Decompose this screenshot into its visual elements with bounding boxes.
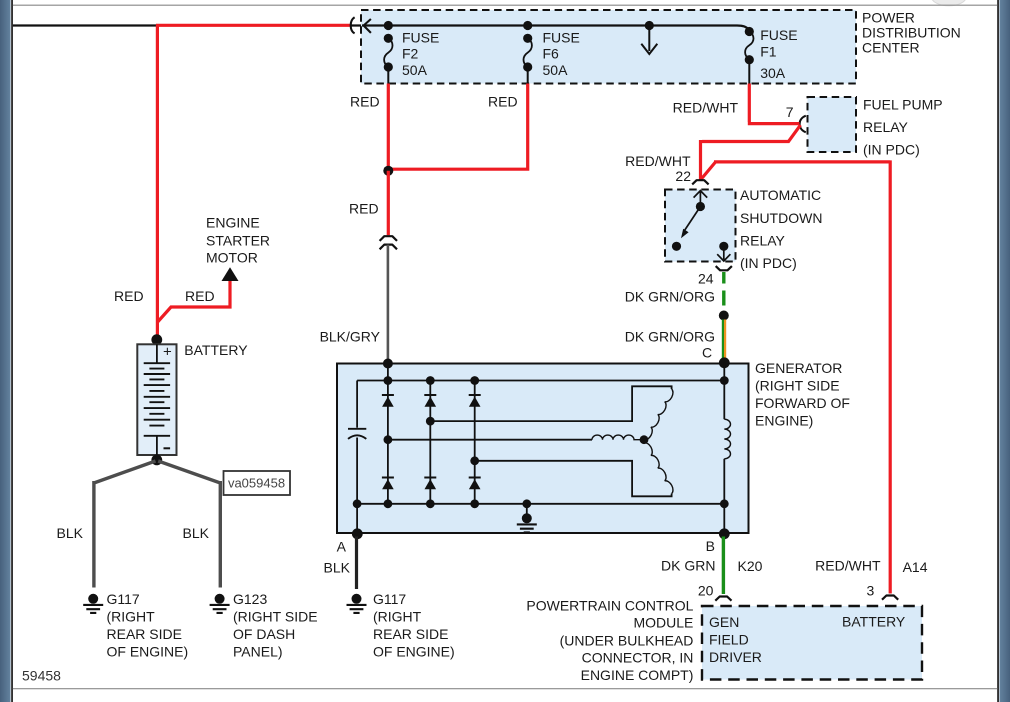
automatic shutdown relay box xyxy=(665,190,736,262)
svg-text:va059458: va059458 xyxy=(228,476,285,491)
svg-text:FUSE: FUSE xyxy=(760,27,797,43)
diode (bottom, leg 1) xyxy=(382,477,394,479)
svg-text:FORWARD OF: FORWARD OF xyxy=(755,395,850,411)
generator internal bottom rail xyxy=(357,503,724,505)
svg-text:F2: F2 xyxy=(402,45,419,61)
svg-text:(RIGHT: (RIGHT xyxy=(107,609,156,625)
ASD relay coil-side pin arrow (pin 22 internal) xyxy=(694,191,708,207)
rectifier leg 1 (x 388) xyxy=(387,381,389,504)
wire: DK GRN from generator B to PCM pin 20 xyxy=(722,537,725,595)
svg-text:DRIVER: DRIVER xyxy=(709,649,762,665)
pin 22 connector xyxy=(692,180,708,184)
svg-text:3: 3 xyxy=(867,583,875,599)
ground G123 xyxy=(215,594,225,604)
svg-text:FUSE: FUSE xyxy=(402,29,439,45)
svg-text:G117: G117 xyxy=(107,591,140,607)
svg-text:C: C xyxy=(702,345,712,361)
svg-text:CONNECTOR, IN: CONNECTOR, IN xyxy=(582,650,694,666)
diode (top, leg 1) xyxy=(382,394,394,396)
node: BLK/GRY entry junction on generator xyxy=(383,359,393,369)
node C terminal xyxy=(719,357,730,368)
svg-text:SHUTDOWN: SHUTDOWN xyxy=(740,210,822,226)
svg-text:30A: 30A xyxy=(760,65,786,81)
svg-text:RED: RED xyxy=(350,94,380,110)
pin 20 connector xyxy=(715,597,731,601)
svg-text:+: + xyxy=(163,344,172,361)
svg-text:ENGINE COMPT): ENGINE COMPT) xyxy=(581,667,694,683)
stator phase line 2 xyxy=(388,439,592,441)
pin 3 connector xyxy=(882,596,898,600)
wire: PDC internal bus xyxy=(362,26,749,30)
svg-text:F1: F1 xyxy=(760,43,777,59)
svg-text:FIELD: FIELD xyxy=(709,632,749,648)
svg-text:AUTOMATIC: AUTOMATIC xyxy=(740,187,821,203)
svg-text:RED: RED xyxy=(349,201,379,217)
va059458 reference box xyxy=(224,471,291,495)
node A terminal xyxy=(356,504,358,533)
ASD relay output contact (pin 24 internal) xyxy=(719,242,728,251)
generator internal top rail xyxy=(357,380,724,382)
stator winding (lower branch coil) xyxy=(644,443,673,494)
ground G117 (generator) xyxy=(352,594,362,604)
svg-text:(RIGHT: (RIGHT xyxy=(373,609,422,625)
svg-text:RED: RED xyxy=(488,94,518,110)
svg-text:(RIGHT SIDE: (RIGHT SIDE xyxy=(233,609,318,625)
svg-text:BATTERY: BATTERY xyxy=(842,614,906,630)
svg-text:50A: 50A xyxy=(402,62,428,78)
svg-text:MODULE: MODULE xyxy=(633,615,693,631)
svg-text:B: B xyxy=(706,538,715,554)
wire: RED/WHT from fuse F1 to fuel pump relay pin 7 xyxy=(748,84,800,124)
stator star point xyxy=(640,435,649,444)
svg-text:OF ENGINE): OF ENGINE) xyxy=(107,644,189,660)
svg-text:RED: RED xyxy=(114,288,144,304)
powertrain control module box xyxy=(702,606,922,680)
svg-text:RELAY: RELAY xyxy=(863,119,909,135)
svg-text:BLK: BLK xyxy=(57,525,84,541)
svg-text:RED/WHT: RED/WHT xyxy=(625,153,691,169)
svg-text:50A: 50A xyxy=(543,62,569,78)
wire: RED branch to engine starter motor xyxy=(158,279,230,322)
stator winding (horizontal coil) xyxy=(592,435,644,440)
svg-text:BLK: BLK xyxy=(183,525,210,541)
pin 7 connector xyxy=(800,116,806,133)
wire: DK GRN/ORG dashed from pin 24 to splice xyxy=(722,272,725,312)
power distribution center box xyxy=(361,10,856,84)
wire: DK GRN/ORG two-tone from splice to generator terminal C xyxy=(722,320,724,361)
svg-text:MOTOR: MOTOR xyxy=(206,249,258,265)
fuse F1 30A xyxy=(745,27,754,36)
stator phase line 3 with bracket xyxy=(475,461,672,497)
wire: BLK battery negative to ground G117 xyxy=(94,461,156,588)
rectifier leg 3 (x 475) xyxy=(474,381,476,504)
diode (top, leg 3) xyxy=(469,394,481,396)
wire: RED/WHT from pin 7 down-left to ASD relay pin 22 xyxy=(701,125,801,180)
wire: BLK/GRY from connector down to generator xyxy=(387,245,390,361)
svg-text:G123: G123 xyxy=(233,591,267,607)
svg-text:G117: G117 xyxy=(373,591,406,607)
svg-text:22: 22 xyxy=(675,168,691,184)
stator winding (upper branch coil) xyxy=(644,389,673,440)
svg-text:20: 20 xyxy=(698,583,714,599)
diode (bottom, leg 3) xyxy=(469,477,481,479)
fuse F6 50A xyxy=(523,21,532,30)
svg-text:(IN PDC): (IN PDC) xyxy=(863,142,920,158)
field winding xyxy=(723,381,725,420)
svg-text:(IN PDC): (IN PDC) xyxy=(740,255,797,271)
ground (generator internal) xyxy=(526,504,528,514)
svg-text:F6: F6 xyxy=(543,45,560,61)
svg-text:DK GRN: DK GRN xyxy=(661,558,715,574)
capacitor xyxy=(356,381,358,428)
in-line connector (RED to BLK/GRY) xyxy=(380,236,397,241)
node B terminal xyxy=(723,504,725,533)
svg-text:FUEL PUMP: FUEL PUMP xyxy=(863,96,943,112)
svg-text:RED: RED xyxy=(185,288,215,304)
svg-text:PANEL): PANEL) xyxy=(233,644,283,660)
svg-text:(RIGHT SIDE: (RIGHT SIDE xyxy=(755,377,840,393)
svg-text:FUSE: FUSE xyxy=(543,29,580,45)
svg-text:59458: 59458 xyxy=(22,668,61,684)
svg-text:REAR SIDE: REAR SIDE xyxy=(107,626,182,642)
svg-text:OF ENGINE): OF ENGINE) xyxy=(373,644,455,660)
svg-text:POWERTRAIN CONTROL: POWERTRAIN CONTROL xyxy=(526,597,693,613)
rectifier leg 2 (x 430) xyxy=(429,381,431,504)
svg-text:OF DASH: OF DASH xyxy=(233,626,295,642)
ground G117 (battery left) xyxy=(88,594,98,604)
wire: RED/WHT branch from pin 22 to right side down to PCM pin 3 xyxy=(701,160,890,593)
diode (bottom, leg 2) xyxy=(424,477,436,479)
svg-text:24: 24 xyxy=(698,270,714,286)
ASD relay contact arm xyxy=(696,202,705,211)
svg-text:REAR SIDE: REAR SIDE xyxy=(373,626,448,642)
svg-text:7: 7 xyxy=(786,104,794,120)
svg-text:(UNDER BULKHEAD: (UNDER BULKHEAD xyxy=(560,632,694,648)
diode (top, leg 2) xyxy=(424,394,436,396)
svg-text:K20: K20 xyxy=(738,558,763,574)
splice (RED junction) xyxy=(383,166,393,176)
svg-text:DK GRN/ORG: DK GRN/ORG xyxy=(625,329,715,345)
svg-text:CENTER: CENTER xyxy=(862,39,920,55)
wire: BLK from generator A to ground G117 xyxy=(355,537,358,590)
svg-text:RED/WHT: RED/WHT xyxy=(673,100,739,116)
wire: RED from fuse F2 down to splice xyxy=(387,84,390,167)
svg-text:STARTER: STARTER xyxy=(206,232,270,248)
svg-text:POWER: POWER xyxy=(862,10,915,26)
svg-text:BATTERY: BATTERY xyxy=(184,342,248,358)
battery cell plates xyxy=(156,344,158,363)
fuse F2 50A xyxy=(384,21,393,30)
pin 24 connector xyxy=(716,266,732,270)
svg-text:DISTRIBUTION: DISTRIBUTION xyxy=(862,25,961,41)
svg-text:BLK: BLK xyxy=(324,560,351,576)
wire: BLK battery negative to ground G123 xyxy=(158,461,220,588)
svg-text:RED/WHT: RED/WHT xyxy=(815,558,881,574)
generator box xyxy=(337,364,749,534)
battery xyxy=(151,334,162,345)
svg-text:A14: A14 xyxy=(903,559,928,575)
engine starter motor (arrow symbol) xyxy=(222,267,239,281)
svg-text:GENERATOR: GENERATOR xyxy=(755,360,842,376)
fuel pump relay box xyxy=(808,97,857,152)
splice (DK GRN/ORG junction) xyxy=(719,311,729,321)
stator phase line 1 with bracket xyxy=(430,386,671,421)
svg-text:GEN: GEN xyxy=(709,614,739,630)
svg-text:DK GRN/ORG: DK GRN/ORG xyxy=(625,289,715,305)
svg-text:ENGINE: ENGINE xyxy=(206,215,260,231)
PDC unused feed arrow xyxy=(645,21,654,30)
wire: black battery feed bus from left border to PDC xyxy=(13,24,362,26)
in-line connector at PDC bus entry xyxy=(351,17,355,33)
svg-text:BLK/GRY: BLK/GRY xyxy=(320,329,381,345)
wire: RED from fuse F6 down and left to splice xyxy=(390,84,528,170)
svg-text:ENGINE): ENGINE) xyxy=(755,412,813,428)
svg-text:RELAY: RELAY xyxy=(740,232,786,248)
wire: RED feed from bus down to battery positive xyxy=(156,25,351,336)
svg-text:A: A xyxy=(337,539,347,555)
